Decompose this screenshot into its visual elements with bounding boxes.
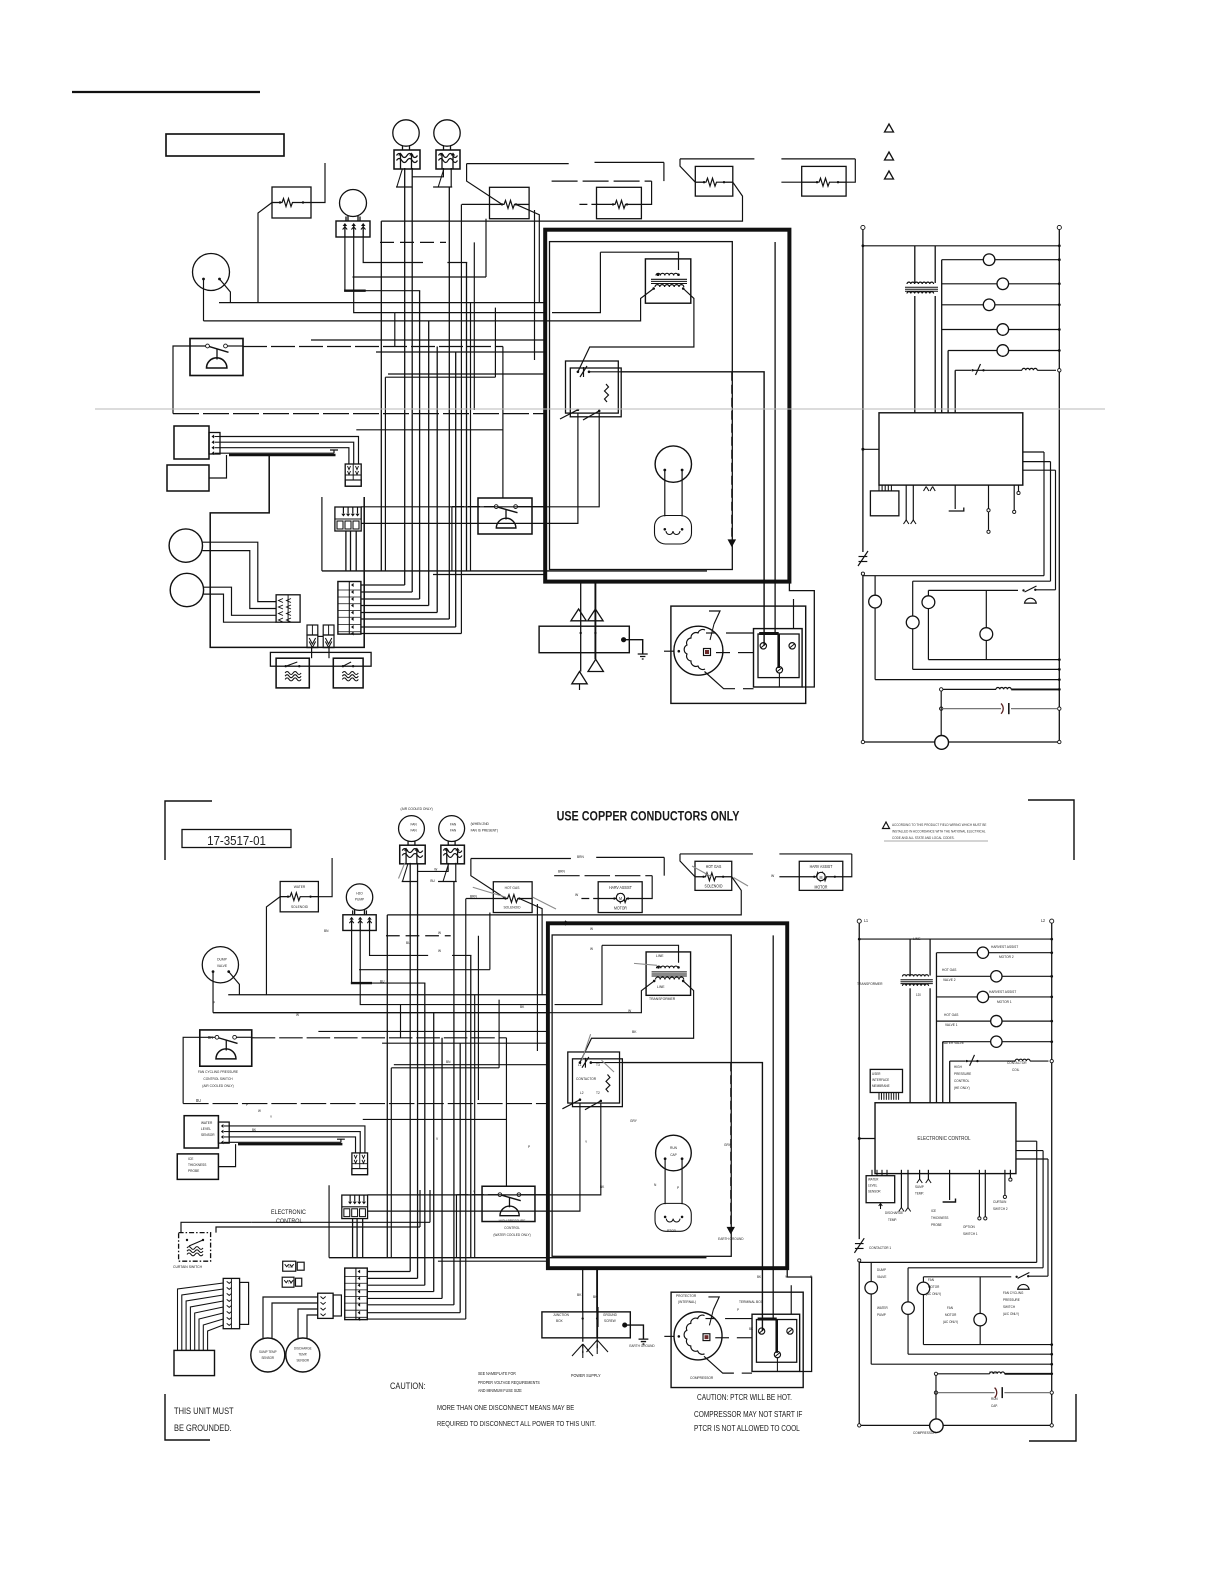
svg-text:MOTOR 1: MOTOR 1	[997, 1000, 1012, 1004]
svg-text:FAN CYCLING: FAN CYCLING	[1003, 1291, 1024, 1295]
svg-text:RUN: RUN	[670, 1146, 677, 1150]
svg-text:HOT GAS: HOT GAS	[706, 865, 722, 869]
svg-text:CURTAIN: CURTAIN	[993, 1200, 1007, 1204]
svg-text:TRANSFORMER: TRANSFORMER	[857, 982, 883, 986]
svg-text:OPTION: OPTION	[963, 1225, 975, 1229]
svg-text:SUMP: SUMP	[915, 1185, 925, 1189]
svg-text:M: M	[820, 875, 823, 880]
svg-text:SENSOR: SENSOR	[262, 1356, 275, 1360]
svg-text:CONTROL: CONTROL	[504, 1226, 520, 1230]
svg-text:FAN: FAN	[928, 1278, 934, 1282]
svg-text:SOLENOID: SOLENOID	[291, 905, 308, 909]
svg-text:PTCR IS NOT ALLOWED TO COOL: PTCR IS NOT ALLOWED TO COOL	[694, 1423, 800, 1433]
svg-text:PUMP: PUMP	[877, 1313, 887, 1317]
svg-text:T2: T2	[596, 1091, 600, 1095]
svg-text:BN: BN	[446, 1060, 451, 1064]
svg-text:(INTERNAL): (INTERNAL)	[678, 1300, 696, 1304]
svg-text:(AIR COOLED ONLY): (AIR COOLED ONLY)	[202, 1084, 233, 1088]
svg-text:(AC ONLY): (AC ONLY)	[943, 1320, 958, 1324]
svg-text:FAN: FAN	[450, 822, 457, 826]
svg-text:SWITCH: SWITCH	[1003, 1305, 1016, 1309]
svg-text:17-3517-01: 17-3517-01	[207, 833, 266, 848]
svg-text:L2: L2	[580, 1091, 584, 1095]
svg-text:MOTOR: MOTOR	[614, 906, 627, 910]
svg-text:T3: T3	[596, 1063, 600, 1067]
svg-text:VALVE: VALVE	[217, 964, 228, 968]
svg-text:CONTROL: CONTROL	[276, 1219, 303, 1225]
svg-text:PRESSURE: PRESSURE	[1003, 1298, 1020, 1302]
svg-text:CODE AND ALL STATE AND LOCAL C: CODE AND ALL STATE AND LOCAL CODES.	[892, 836, 955, 840]
svg-text:BRN: BRN	[470, 894, 477, 898]
svg-text:BK: BK	[600, 1185, 605, 1189]
svg-text:PTCR: PTCR	[667, 1229, 676, 1233]
svg-text:BU: BU	[380, 979, 385, 983]
svg-text:TEMP.: TEMP.	[888, 1218, 897, 1222]
svg-text:VALVE 2: VALVE 2	[943, 978, 956, 982]
svg-text:PUMP: PUMP	[355, 897, 365, 901]
svg-text:BK: BK	[520, 1005, 525, 1009]
svg-text:DUMP: DUMP	[877, 1268, 887, 1272]
svg-text:SUMP TEMP: SUMP TEMP	[259, 1350, 277, 1354]
svg-text:HARVEST ASSIST: HARVEST ASSIST	[991, 945, 1019, 949]
svg-text:SCREW: SCREW	[604, 1319, 616, 1323]
svg-text:USER: USER	[872, 1072, 881, 1076]
svg-text:ELECTRONIC CONTROL: ELECTRONIC CONTROL	[917, 1136, 970, 1142]
svg-text:REQUIRED TO DISCONNECT ALL POW: REQUIRED TO DISCONNECT ALL POWER TO THIS…	[437, 1421, 596, 1429]
svg-text:BN: BN	[324, 929, 329, 933]
svg-text:WATER: WATER	[294, 885, 306, 889]
svg-text:BK: BK	[593, 1295, 598, 1299]
svg-text:CONTROL: CONTROL	[954, 1079, 969, 1083]
svg-text:POWER SUPPLY: POWER SUPPLY	[571, 1373, 601, 1378]
svg-text:L1: L1	[578, 1063, 582, 1067]
svg-text:MOTOR: MOTOR	[945, 1313, 957, 1317]
svg-text:RUN: RUN	[991, 1397, 998, 1401]
svg-text:THIS UNIT MUST: THIS UNIT MUST	[174, 1406, 234, 1416]
svg-text:HARVEST ASSIST: HARVEST ASSIST	[989, 990, 1017, 994]
svg-text:CONTROL SWITCH: CONTROL SWITCH	[203, 1077, 233, 1081]
svg-text:CONTACTOR: CONTACTOR	[1007, 1061, 1027, 1065]
svg-text:LINE: LINE	[656, 954, 664, 958]
svg-text:DIS: DIS	[288, 1265, 293, 1269]
svg-text:HARV ASSIST: HARV ASSIST	[810, 865, 833, 869]
svg-text:COMPRESSOR: COMPRESSOR	[690, 1376, 714, 1380]
svg-text:VALVE 1: VALVE 1	[945, 1023, 958, 1027]
svg-text:SENSOR: SENSOR	[201, 1133, 215, 1137]
svg-text:THICKNESS: THICKNESS	[931, 1216, 949, 1220]
svg-text:(AC ONLY): (AC ONLY)	[926, 1292, 941, 1296]
svg-text:BRN: BRN	[558, 869, 565, 873]
svg-text:(AIR COOLED ONLY): (AIR COOLED ONLY)	[401, 807, 433, 811]
svg-text:PROPER VOLTAGE REQUIREMENTS: PROPER VOLTAGE REQUIREMENTS	[478, 1380, 540, 1385]
svg-text:BRN: BRN	[577, 855, 584, 859]
svg-text:W: W	[575, 893, 579, 897]
svg-text:BU: BU	[406, 941, 411, 945]
svg-text:WATER: WATER	[868, 1177, 879, 1181]
svg-text:LINE: LINE	[657, 985, 665, 989]
svg-text:BOX: BOX	[556, 1319, 563, 1323]
svg-text:HIGH PRESSURE: HIGH PRESSURE	[499, 1219, 526, 1223]
svg-text:H2O: H2O	[356, 891, 363, 895]
svg-text:PRESSURE: PRESSURE	[954, 1072, 972, 1076]
svg-text:(WHEN 2ND: (WHEN 2ND	[471, 822, 490, 826]
svg-text:ACCORDING TO THIS PRODUCT FIEL: ACCORDING TO THIS PRODUCT FIELD WIRING W…	[892, 823, 987, 827]
svg-text:MOTOR: MOTOR	[815, 885, 828, 889]
svg-text:COIL: COIL	[1012, 1068, 1019, 1072]
svg-text:BK: BK	[577, 1293, 582, 1297]
svg-text:SOLENOID: SOLENOID	[503, 905, 520, 909]
svg-text:CAP: CAP	[670, 1153, 677, 1157]
svg-text:MEMBRANE: MEMBRANE	[872, 1084, 890, 1088]
svg-text:GRY: GRY	[630, 1119, 638, 1123]
svg-text:LEVEL: LEVEL	[201, 1127, 211, 1131]
svg-text:M: M	[619, 896, 622, 901]
svg-text:CAUTION:: CAUTION:	[390, 1381, 426, 1391]
svg-text:CONTACTOR 1: CONTACTOR 1	[869, 1246, 891, 1250]
svg-text:ICE: ICE	[931, 1209, 937, 1213]
svg-text:ELECTRONIC: ELECTRONIC	[271, 1210, 307, 1216]
svg-text:GRY: GRY	[724, 1143, 732, 1147]
svg-text:(HE ONLY): (HE ONLY)	[954, 1086, 970, 1090]
svg-text:LINE: LINE	[913, 937, 921, 941]
svg-text:BN: BN	[208, 1035, 213, 1040]
svg-text:PROTECTOR: PROTECTOR	[676, 1294, 697, 1298]
svg-text:INSTALLED IN ACCORDANCE WITH T: INSTALLED IN ACCORDANCE WITH THE NATIONA…	[892, 829, 986, 833]
svg-text:FAN: FAN	[947, 1306, 953, 1310]
svg-text:L1: L1	[864, 918, 868, 923]
svg-text:BK: BK	[749, 1327, 754, 1331]
svg-text:FAN: FAN	[410, 822, 417, 826]
svg-text:TEMP.: TEMP.	[298, 1352, 307, 1356]
svg-text:HOT GAS: HOT GAS	[505, 886, 520, 890]
svg-text:HARV ASSIST: HARV ASSIST	[609, 886, 632, 890]
svg-text:TERMINAL BOX: TERMINAL BOX	[739, 1300, 763, 1304]
svg-text:TEMP.: TEMP.	[915, 1191, 924, 1195]
svg-text:HOT GAS: HOT GAS	[942, 968, 957, 972]
svg-text:EARTH GROUND: EARTH GROUND	[629, 1344, 655, 1348]
svg-text:(WATER COOLED ONLY): (WATER COOLED ONLY)	[493, 1233, 530, 1237]
svg-text:SWITCH 1: SWITCH 1	[963, 1232, 978, 1236]
svg-text:SENSOR: SENSOR	[297, 1358, 310, 1362]
svg-text:SEE NAMEPLATE FOR: SEE NAMEPLATE FOR	[478, 1371, 516, 1376]
svg-text:VALVE: VALVE	[877, 1275, 887, 1279]
svg-text:N: N	[654, 1183, 657, 1187]
svg-text:GROUND: GROUND	[603, 1313, 617, 1317]
svg-text:L2: L2	[1041, 918, 1045, 923]
svg-text:DISCHARGE: DISCHARGE	[885, 1211, 904, 1215]
svg-text:JUNCTION: JUNCTION	[553, 1313, 569, 1317]
svg-text:SOLENOID: SOLENOID	[705, 884, 723, 888]
svg-text:SWITCH 2: SWITCH 2	[993, 1207, 1008, 1211]
svg-text:WATER: WATER	[877, 1306, 888, 1310]
svg-text:CAP.: CAP.	[991, 1404, 998, 1408]
svg-text:HIGH: HIGH	[954, 1065, 962, 1069]
svg-text:WATER VALVE: WATER VALVE	[942, 1041, 965, 1045]
svg-text:BU: BU	[430, 879, 435, 883]
svg-text:CAUTION: PTCR WILL BE HOT.: CAUTION: PTCR WILL BE HOT.	[697, 1392, 792, 1402]
svg-text:FAN CYCLING PRESSURE: FAN CYCLING PRESSURE	[198, 1070, 239, 1074]
svg-text:120: 120	[916, 993, 921, 997]
svg-text:EARTH GROUND: EARTH GROUND	[718, 1237, 744, 1241]
svg-text:SENSOR: SENSOR	[868, 1189, 881, 1193]
svg-text:W: W	[771, 874, 775, 878]
svg-text:MORE THAN ONE DISCONNECT MEANS: MORE THAN ONE DISCONNECT MEANS MAY BE	[437, 1405, 575, 1413]
svg-text:HOT GAS: HOT GAS	[944, 1013, 959, 1017]
svg-text:BK: BK	[252, 1128, 257, 1132]
svg-text:AND MINIMUM FUSE SIZE: AND MINIMUM FUSE SIZE	[478, 1388, 522, 1393]
svg-text:CONTACTOR: CONTACTOR	[576, 1077, 597, 1081]
svg-text:CURTAIN SWITCH: CURTAIN SWITCH	[173, 1265, 202, 1269]
svg-text:BK: BK	[632, 1030, 637, 1034]
svg-text:PROBE: PROBE	[188, 1169, 200, 1173]
svg-text:DUMP: DUMP	[217, 957, 227, 961]
svg-text:PTCR: PTCR	[989, 1371, 998, 1375]
svg-text:WATER: WATER	[201, 1121, 213, 1125]
svg-text:MOTOR: MOTOR	[928, 1285, 940, 1289]
svg-text:COMPRESSOR MAY NOT START IF: COMPRESSOR MAY NOT START IF	[694, 1409, 803, 1419]
svg-text:MOTOR 2: MOTOR 2	[999, 955, 1014, 959]
svg-text:BK: BK	[757, 1275, 762, 1279]
svg-text:DISCHARGE: DISCHARGE	[294, 1346, 312, 1350]
svg-text:FAN IS PRESENT): FAN IS PRESENT)	[471, 828, 498, 832]
svg-text:(A/C ONLY): (A/C ONLY)	[1003, 1312, 1019, 1316]
svg-text:LEVEL: LEVEL	[868, 1183, 877, 1187]
svg-text:USE COPPER CONDUCTORS ONLY: USE COPPER CONDUCTORS ONLY	[557, 808, 740, 824]
svg-text:BE GROUNDED.: BE GROUNDED.	[174, 1423, 232, 1433]
svg-text:THICKNESS: THICKNESS	[188, 1163, 207, 1167]
svg-text:FAN: FAN	[410, 828, 417, 832]
svg-text:INTERFACE: INTERFACE	[872, 1078, 890, 1082]
svg-text:PROBE: PROBE	[931, 1223, 942, 1227]
svg-text:W: W	[628, 1009, 632, 1013]
svg-text:ICE: ICE	[188, 1157, 194, 1161]
svg-text:FAN: FAN	[450, 828, 457, 832]
svg-text:TRANSFORMER: TRANSFORMER	[649, 997, 675, 1001]
svg-text:BU: BU	[196, 1098, 201, 1103]
svg-text:COMPRESSOR: COMPRESSOR	[913, 1431, 936, 1435]
